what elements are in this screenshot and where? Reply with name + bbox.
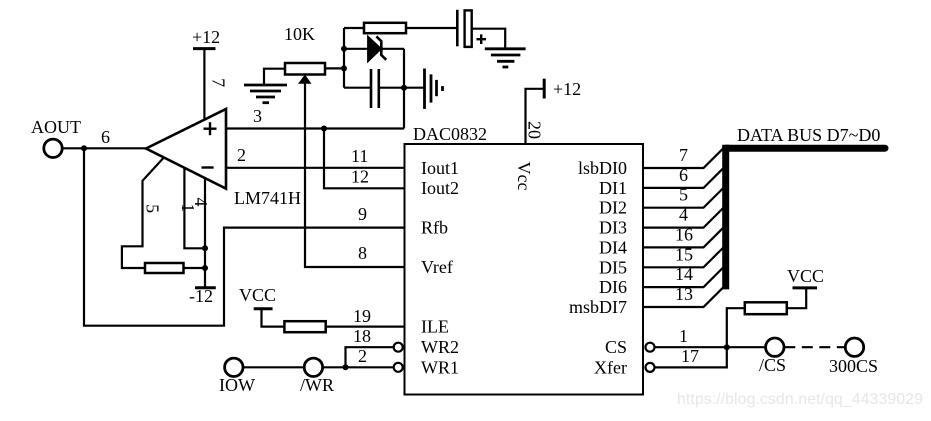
wire IOW to /WR <box>243 366 305 368</box>
/WR terminal <box>300 358 334 395</box>
ground right of C1 <box>485 49 526 67</box>
VCC rail (right) <box>787 266 824 288</box>
wire pot left to ground <box>264 69 285 85</box>
zener diode D1 <box>344 36 404 61</box>
svg-text:Iout2: Iout2 <box>421 178 459 198</box>
svg-text:2: 2 <box>237 145 246 165</box>
svg-text:IOW: IOW <box>219 375 255 395</box>
wire R1 to pin4 node <box>184 267 206 269</box>
capacitor C2 <box>371 69 379 108</box>
svg-text:AOUT: AOUT <box>31 117 81 137</box>
wire AOUT to op-amp output <box>62 147 146 149</box>
wire /WR to WR1 pin <box>323 366 394 368</box>
wire feedback AOUT to Rfb (pin 9) <box>84 148 405 325</box>
svg-text:16: 16 <box>675 224 693 244</box>
inverter bubble WR1 <box>394 363 403 372</box>
+12 supply rail (pin 20) <box>544 79 581 99</box>
svg-text:14: 14 <box>675 264 693 284</box>
wire Xfer (pin 17) <box>655 347 727 367</box>
svg-text:VCC: VCC <box>239 285 276 305</box>
wire -input (pin 2) to Iout1 (pin 11) <box>226 167 405 169</box>
node CS junction <box>724 344 730 350</box>
svg-text:Iout1: Iout1 <box>421 158 459 178</box>
svg-text:lsbDI0: lsbDI0 <box>578 158 627 178</box>
op-amp pin 4 wire to -12 <box>204 178 206 288</box>
svg-text:1: 1 <box>679 326 688 346</box>
polarized capacitor C1 <box>457 10 486 47</box>
svg-text:https://blog.csdn.net/qq_44339: https://blog.csdn.net/qq_44339029 <box>677 391 923 408</box>
svg-text:18: 18 <box>353 326 371 346</box>
resistor R1 (offset null) <box>145 263 184 273</box>
pin 20 Vcc wire to +12 <box>526 89 545 144</box>
svg-text:DATA BUS D7~D0: DATA BUS D7~D0 <box>737 125 880 145</box>
wire left node column <box>343 28 345 88</box>
wire DI6 (pin 14) to bus <box>643 267 723 287</box>
svg-text:msbDI7: msbDI7 <box>569 297 627 317</box>
node right of cap <box>401 85 407 91</box>
svg-text:DI4: DI4 <box>599 237 627 257</box>
op-amp pin 1 wire <box>184 168 205 248</box>
svg-text:DI3: DI3 <box>599 218 627 238</box>
wire cap right to ground and node <box>379 87 425 89</box>
wire node column right (zener/cap to +input line) <box>403 49 405 129</box>
inverter bubble CS <box>646 343 655 352</box>
ground under pot <box>244 85 287 103</box>
svg-text:15: 15 <box>675 244 693 264</box>
wire +input (pin 3) <box>226 127 404 129</box>
wire pin7 from +12 to op-amp <box>203 49 205 121</box>
svg-text:/WR: /WR <box>300 375 334 395</box>
resistor R2 (top) <box>344 23 457 33</box>
op-amp + input symbol <box>204 122 217 135</box>
dashed wire /CS to 300CS <box>784 346 845 348</box>
node pot tap <box>341 65 347 71</box>
-12 supply rail <box>189 286 216 306</box>
wire pot right to node column <box>325 67 344 69</box>
svg-text:11: 11 <box>351 146 368 166</box>
svg-text:DI5: DI5 <box>599 257 627 277</box>
svg-text:20: 20 <box>525 121 545 139</box>
wire DI1 (pin 6) to bus <box>643 168 723 188</box>
wire R4 to VCC <box>787 288 806 308</box>
svg-text:LM741H: LM741H <box>234 188 301 208</box>
svg-text:6: 6 <box>101 127 110 147</box>
node zener anode <box>341 46 347 52</box>
svg-text:9: 9 <box>358 204 367 224</box>
wire CS node up to R4 <box>727 308 745 347</box>
wire CS (pin 1) to /CS <box>655 346 766 348</box>
svg-text:+12: +12 <box>192 27 220 47</box>
svg-text:7: 7 <box>209 78 229 87</box>
pin names right column <box>569 158 627 377</box>
node AOUT junction <box>81 145 87 151</box>
svg-text:DI1: DI1 <box>599 178 627 198</box>
data bus thick lines <box>726 145 885 290</box>
/CS terminal <box>759 338 786 375</box>
svg-text:17: 17 <box>681 346 699 366</box>
300CS terminal <box>829 338 878 376</box>
svg-text:3: 3 <box>253 106 262 126</box>
wire +input node to Iout2 (pin 12) <box>324 129 405 189</box>
wire WR junction to WR2 <box>346 347 394 367</box>
svg-text:-12: -12 <box>189 286 213 306</box>
svg-text:WR2: WR2 <box>421 337 459 357</box>
wire DI3 (pin 4) to bus <box>643 208 723 228</box>
wire pot wiper to Vref (pin 8) <box>305 80 405 267</box>
svg-text:VCC: VCC <box>787 266 824 286</box>
wire DI2 (pin 5) to bus <box>643 188 723 208</box>
svg-text:19: 19 <box>353 306 371 326</box>
svg-text:8: 8 <box>358 243 367 263</box>
op-amp - input symbol <box>202 166 214 168</box>
svg-text:DI6: DI6 <box>599 277 627 297</box>
node R1/pin4 <box>202 265 208 271</box>
svg-text:13: 13 <box>675 284 693 304</box>
inverter bubble WR2 <box>394 343 403 352</box>
node on +input <box>321 126 327 132</box>
svg-text:4: 4 <box>191 198 211 207</box>
wire DI0 (pin 7) to bus <box>643 148 723 168</box>
ground (rotated) right of C2 <box>425 69 443 109</box>
svg-text:7: 7 <box>679 145 688 165</box>
node pin1/pin4 <box>202 245 208 251</box>
svg-text:+12: +12 <box>553 79 581 99</box>
node WR junction <box>343 364 349 370</box>
svg-text:10K: 10K <box>284 24 315 44</box>
svg-text:CS: CS <box>605 337 627 357</box>
svg-text:ILE: ILE <box>421 317 449 337</box>
wire C1 to ground <box>472 29 506 49</box>
op-amp pin 5 wire to offset network <box>122 158 164 268</box>
svg-text:4: 4 <box>679 205 688 225</box>
wire VCC to R3 <box>262 309 285 327</box>
op-amp U1 triangle <box>146 109 226 189</box>
wire cap left to node column <box>344 87 371 89</box>
svg-text:5: 5 <box>143 204 163 213</box>
pin names left column <box>421 158 459 377</box>
potentiometer 10K <box>284 24 325 84</box>
inverter bubble Xfer <box>646 363 655 372</box>
resistor R4 (pull-up) <box>745 302 787 314</box>
IOW terminal <box>219 358 255 395</box>
wire DI4 (pin 16) to bus <box>643 228 723 248</box>
svg-text:Rfb: Rfb <box>421 218 448 238</box>
svg-text:Xfer: Xfer <box>594 357 627 377</box>
svg-text:6: 6 <box>679 165 688 185</box>
resistor R3 (ILE) <box>284 321 325 332</box>
AOUT terminal <box>31 117 81 158</box>
VCC rail (ILE pull-up) <box>239 285 276 309</box>
wire DI5 (pin 15) to bus <box>643 248 723 268</box>
DAC0832 IC body <box>405 144 644 395</box>
svg-text:Vref: Vref <box>421 257 453 277</box>
svg-text:300CS: 300CS <box>829 356 878 376</box>
wire R3 to ILE pin 19 <box>326 326 405 328</box>
wire DI7 (pin 13) to bus <box>643 287 723 307</box>
svg-text:WR1: WR1 <box>421 357 459 377</box>
svg-text:12: 12 <box>351 167 369 187</box>
svg-text:DAC0832: DAC0832 <box>413 124 487 144</box>
svg-text:2: 2 <box>358 346 367 366</box>
+12 supply rail (op-amp pin 7) <box>192 27 220 49</box>
svg-text:Vcc: Vcc <box>514 162 534 191</box>
svg-text:/CS: /CS <box>759 355 786 375</box>
svg-text:DI2: DI2 <box>599 198 627 218</box>
svg-text:5: 5 <box>679 185 688 205</box>
